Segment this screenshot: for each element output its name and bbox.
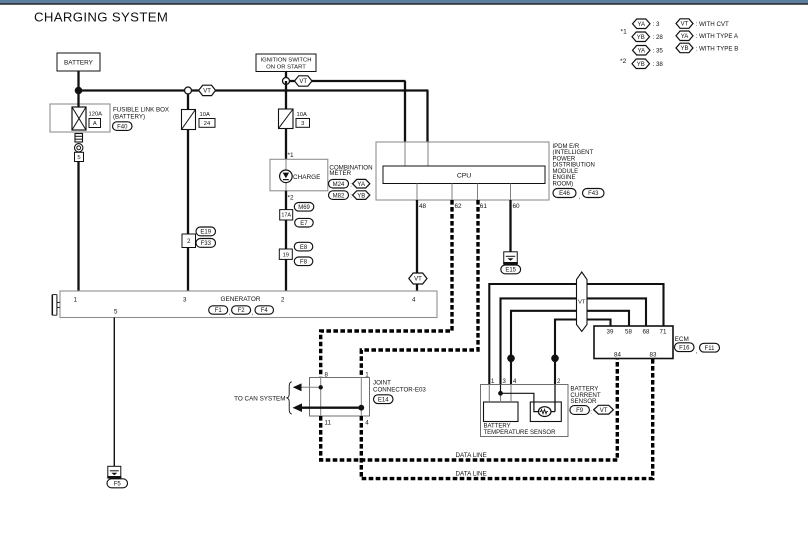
- svg-text:1: 1: [74, 297, 78, 304]
- IPDM internal input lines: [404, 142, 406, 166]
- wire tap to fuse 24: [187, 94, 189, 110]
- connector F11: [700, 343, 720, 352]
- wire pin 60 to ground: [509, 200, 511, 252]
- svg-text:YB: YB: [357, 193, 365, 199]
- wire ignition feed: [286, 80, 406, 82]
- svg-text:71: 71: [660, 329, 667, 336]
- wire tap to fuse 3: [285, 81, 287, 110]
- svg-text:ENGINE: ENGINE: [553, 175, 576, 181]
- CAN wire pin 61 to joint connector pin 1: [361, 200, 478, 378]
- connector F16: [675, 343, 695, 352]
- svg-text:E15: E15: [505, 268, 516, 274]
- svg-text:F40: F40: [117, 124, 128, 130]
- svg-text:1: 1: [365, 372, 369, 379]
- current sensor element: [538, 407, 551, 417]
- svg-text:IGNITION SWITCH: IGNITION SWITCH: [260, 58, 311, 64]
- terminal stack: [75, 134, 83, 143]
- legend tag VT WITH CVT: [676, 19, 693, 29]
- svg-text:4: 4: [412, 297, 416, 304]
- svg-text:*2: *2: [288, 195, 294, 202]
- svg-text:84: 84: [614, 352, 621, 359]
- ECM box: [594, 326, 673, 359]
- wire fuse 3 to meter: [285, 129, 287, 161]
- connector F9: [570, 406, 590, 415]
- wire inside meter: [285, 159, 287, 191]
- svg-text:YB: YB: [637, 62, 645, 68]
- svg-text:VT: VT: [299, 79, 307, 85]
- svg-text:CONNECTOR-E03: CONNECTOR-E03: [373, 386, 426, 393]
- connector E7: [295, 218, 314, 227]
- svg-text:METER: METER: [329, 170, 351, 177]
- svg-text:19: 19: [283, 252, 289, 258]
- svg-text:VT: VT: [203, 89, 211, 95]
- joint connector box: [310, 378, 370, 417]
- svg-text:VT: VT: [414, 277, 422, 283]
- svg-text:(INTELLIGENT: (INTELLIGENT: [553, 150, 594, 156]
- svg-text:YA: YA: [637, 22, 645, 28]
- svg-text:10A: 10A: [200, 112, 210, 118]
- svg-text:5: 5: [77, 155, 80, 161]
- svg-text:24: 24: [204, 121, 211, 127]
- svg-text:: WITH TYPE B: : WITH TYPE B: [696, 45, 739, 52]
- legend tag YB 28: [632, 32, 650, 42]
- svg-text:YA: YA: [681, 34, 689, 40]
- tag VT sensor: [594, 405, 614, 414]
- jc branch arrow upper: [296, 386, 321, 388]
- generator box: [60, 291, 437, 318]
- svg-text:*1: *1: [621, 29, 628, 36]
- svg-text:17A: 17A: [281, 213, 291, 219]
- connector E14: [374, 395, 394, 404]
- svg-text:: 38: : 38: [653, 61, 664, 68]
- connector F1: [209, 306, 228, 314]
- svg-text::: :: [350, 194, 352, 200]
- svg-text:ECM: ECM: [675, 336, 689, 343]
- fuse 24 symbol: [182, 110, 196, 130]
- connector F43: [583, 189, 605, 198]
- wire fuse 24 down: [187, 130, 189, 236]
- legend tag YB WITH TYPE B: [676, 43, 693, 53]
- svg-text:DATA LINE: DATA LINE: [456, 470, 487, 477]
- wire sensor pin2 to ECM pin 39: [555, 320, 611, 386]
- svg-text:58: 58: [625, 329, 632, 336]
- jc branch arrow lower: [296, 407, 361, 409]
- CAN wire pin 62 to joint connector pin 8: [321, 200, 452, 378]
- connector E15: [501, 265, 521, 274]
- splice node on pin4 wire: [507, 355, 515, 363]
- svg-text:120A: 120A: [89, 112, 103, 118]
- connector E8: [294, 242, 313, 251]
- wire battery down: [77, 71, 79, 91]
- svg-text:POWER: POWER: [553, 156, 576, 162]
- svg-text:F9: F9: [576, 408, 584, 414]
- svg-text:: WITH CVT: : WITH CVT: [696, 21, 730, 28]
- svg-text:E46: E46: [559, 191, 570, 197]
- wire meter to generator pin 2: [285, 191, 287, 292]
- connector F8: [294, 257, 313, 266]
- terminal 2 box: [182, 234, 196, 248]
- svg-text:F11: F11: [705, 346, 716, 352]
- joint connector internal lines: [320, 378, 322, 417]
- legend tag YA 3: [633, 19, 651, 29]
- svg-text:8: 8: [325, 372, 329, 379]
- svg-text:BATTERY: BATTERY: [64, 60, 94, 67]
- svg-text:62: 62: [455, 203, 463, 210]
- svg-text:ON OR START: ON OR START: [266, 65, 306, 71]
- svg-text:DATA LINE: DATA LINE: [456, 452, 487, 459]
- bcs internal wires: [488, 385, 490, 403]
- battery current sensor box: [481, 385, 569, 437]
- ground E15: [504, 252, 518, 263]
- wire pin 48 to generator pin 4: [416, 284, 418, 292]
- svg-text:(BATTERY): (BATTERY): [113, 114, 145, 121]
- svg-text:VT: VT: [681, 22, 689, 28]
- svg-text:DISTRIBUTION: DISTRIBUTION: [553, 163, 595, 169]
- svg-text:: WITH TYPE A: : WITH TYPE A: [696, 33, 739, 40]
- svg-text:*2: *2: [620, 58, 627, 65]
- svg-text:BATTERY: BATTERY: [484, 424, 511, 430]
- svg-text:YB: YB: [637, 35, 645, 41]
- wire pin 48 down: [416, 200, 418, 274]
- svg-text:: 28: : 28: [653, 34, 664, 41]
- svg-text:68: 68: [643, 329, 650, 336]
- legend tag YB 38: [632, 59, 650, 69]
- splice node on pin2 wire: [551, 355, 559, 363]
- wire ignition down: [285, 72, 287, 82]
- svg-text:CHARGE: CHARGE: [293, 174, 320, 181]
- node fuse 24 tap: [185, 87, 192, 94]
- charge lamp: [280, 170, 293, 183]
- wire main bus: [79, 89, 429, 91]
- terminal 19 box: [279, 249, 292, 259]
- svg-text:4: 4: [365, 420, 369, 427]
- fusible link 120A symbol: [72, 107, 86, 130]
- tag VT on main bus: [199, 85, 216, 95]
- brace to CAN system: [287, 382, 292, 414]
- svg-text:CPU: CPU: [457, 173, 471, 180]
- label fuse 24: [199, 119, 215, 128]
- svg-text:ROOM): ROOM): [553, 181, 574, 187]
- svg-text:60: 60: [513, 203, 521, 210]
- svg-text:YB: YB: [680, 46, 688, 52]
- svg-text:YA: YA: [637, 48, 645, 54]
- connector E46: [553, 189, 576, 198]
- svg-text:E19: E19: [200, 230, 211, 236]
- combination meter box: [270, 159, 328, 191]
- legend tag YA WITH TYPE A: [676, 31, 693, 41]
- terminal 17A box: [280, 210, 293, 220]
- connector ring: [75, 144, 83, 152]
- data line 1 jc pin 11 to ECM pin 84: [321, 359, 618, 461]
- battery temperature sensor element box: [484, 402, 519, 422]
- IPDM E/R box: [376, 142, 549, 200]
- svg-text:M82: M82: [333, 193, 345, 199]
- connector M69: [294, 203, 314, 212]
- svg-text:,: ,: [579, 195, 581, 201]
- svg-text:MODULE: MODULE: [553, 169, 579, 175]
- top bar: [0, 0, 808, 3]
- svg-text:TEMPERATURE SENSOR: TEMPERATURE SENSOR: [484, 430, 557, 436]
- svg-text:10A: 10A: [297, 112, 307, 118]
- svg-text:F8: F8: [300, 259, 308, 265]
- battery box: [57, 53, 100, 71]
- tag VT on ignition feed: [295, 76, 313, 86]
- connector F2: [232, 306, 251, 314]
- fusible link box outline: [50, 104, 110, 132]
- svg-text:A: A: [93, 121, 97, 127]
- svg-text:SENSOR: SENSOR: [570, 398, 597, 405]
- svg-text:E8: E8: [300, 245, 308, 251]
- svg-text:F43: F43: [588, 191, 599, 197]
- svg-text:GENERATOR: GENERATOR: [221, 296, 261, 303]
- wire ignition drop to IPDM: [404, 81, 406, 143]
- fuse 3 symbol: [279, 109, 294, 129]
- svg-text:39: 39: [607, 329, 614, 336]
- svg-text::: :: [350, 182, 352, 188]
- ignition switch box: [256, 54, 316, 72]
- svg-text:: 35: : 35: [653, 48, 664, 55]
- svg-text::: :: [590, 410, 592, 416]
- connector F4: [255, 306, 274, 314]
- connector E19: [196, 227, 216, 236]
- svg-text:CHARGING SYSTEM: CHARGING SYSTEM: [34, 10, 168, 25]
- svg-text:F5: F5: [114, 481, 122, 487]
- svg-text:F1: F1: [215, 308, 223, 314]
- connector F5: [107, 479, 128, 488]
- svg-text:48: 48: [419, 203, 427, 210]
- connector F40: [113, 122, 133, 131]
- svg-text:VT: VT: [600, 408, 608, 414]
- svg-text:*1: *1: [288, 152, 294, 159]
- svg-text:2: 2: [281, 297, 285, 304]
- connector M24: [329, 179, 349, 188]
- tag VT tall: [577, 272, 588, 332]
- label terminal A: [89, 119, 101, 128]
- svg-text:M69: M69: [298, 205, 310, 211]
- CPU box: [383, 166, 545, 184]
- svg-text:IPDM E/R: IPDM E/R: [553, 144, 580, 150]
- current sensor element box: [530, 402, 561, 422]
- svg-text:VT: VT: [578, 300, 586, 306]
- svg-text:F4: F4: [261, 308, 269, 314]
- ground F5: [108, 466, 121, 477]
- wire sensor pin1 to ECM pin 71: [489, 284, 663, 385]
- generator terminal bracket: [51, 295, 53, 316]
- svg-text:11: 11: [325, 420, 332, 427]
- tag YA meter: [353, 179, 370, 188]
- svg-text:FUSIBLE LINK BOX: FUSIBLE LINK BOX: [113, 107, 169, 114]
- IPDM internal output lines: [416, 184, 418, 201]
- connector M82: [329, 191, 349, 200]
- wire to generator pin 3: [187, 248, 189, 293]
- svg-text:61: 61: [480, 203, 488, 210]
- svg-text:3: 3: [183, 297, 187, 304]
- svg-text:M24: M24: [333, 182, 345, 188]
- wire generator pin 5 to ground: [113, 318, 115, 467]
- svg-text:E7: E7: [300, 221, 308, 227]
- svg-text:: 3: : 3: [653, 21, 660, 28]
- label fuse 3: [296, 119, 310, 128]
- svg-text:TO CAN SYSTEM: TO CAN SYSTEM: [234, 395, 285, 402]
- node ignition tap: [283, 78, 290, 85]
- svg-text:F33: F33: [201, 241, 212, 247]
- tag VT on pin48 wire: [409, 273, 427, 284]
- connector F33: [196, 239, 216, 248]
- svg-text:E14: E14: [378, 397, 389, 403]
- wire sensor pin3 to ECM pin 68: [501, 298, 647, 385]
- svg-text:F2: F2: [238, 308, 246, 314]
- svg-text:3: 3: [301, 121, 304, 127]
- legend tag YA 35: [633, 46, 651, 56]
- svg-text:YA: YA: [357, 182, 365, 188]
- svg-text:,: ,: [696, 349, 698, 355]
- svg-text:83: 83: [650, 352, 657, 359]
- svg-text:5: 5: [114, 309, 118, 316]
- wire into fusible link: [77, 91, 79, 109]
- wire fusible link to generator pin 1: [77, 162, 79, 293]
- wire sensor pin4 to ECM pin 58: [511, 311, 629, 385]
- wire main bus drop to IPDM: [426, 91, 428, 144]
- data line 2 jc pin 4 to ECM pin 83: [361, 359, 652, 479]
- svg-text:F16: F16: [679, 345, 690, 351]
- terminal 5 box: [75, 152, 84, 161]
- node battery junction: [75, 87, 83, 95]
- tag YB meter: [353, 191, 370, 200]
